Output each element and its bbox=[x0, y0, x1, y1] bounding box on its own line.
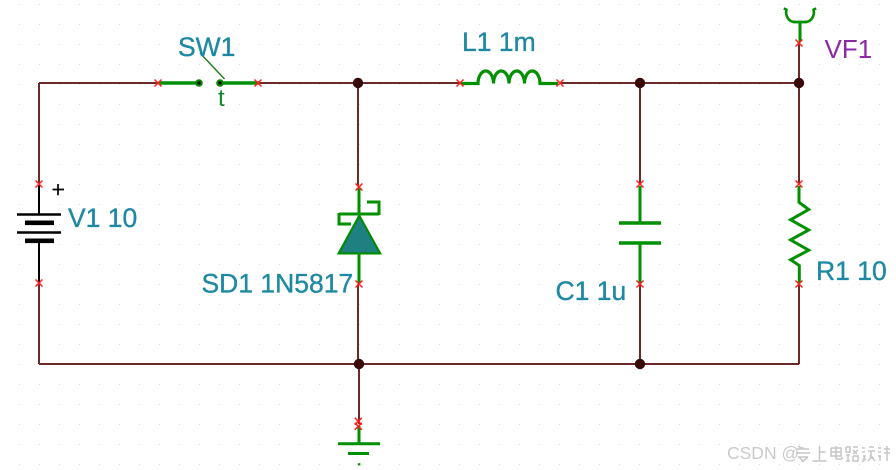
wire ground drop bbox=[358, 364, 360, 424]
node A junction dot bbox=[353, 78, 363, 88]
svg-text:VF1: VF1 bbox=[825, 34, 873, 64]
pin x inductor left bbox=[457, 80, 464, 87]
svg-text:L1 1m: L1 1m bbox=[462, 27, 536, 57]
pin x diode bottom bbox=[356, 281, 363, 288]
svg-text:SD1 1N5817: SD1 1N5817 bbox=[202, 269, 354, 299]
pin x switch right bbox=[255, 80, 262, 87]
wire diode to bottom rail bbox=[357, 284, 359, 364]
node C junction dot (top right corner) bbox=[794, 78, 804, 88]
wire battery - down to bottom rail bbox=[38, 284, 40, 364]
pin x C1 top bbox=[637, 181, 644, 188]
diode SD1 (Schottky) bbox=[339, 188, 381, 283]
wire top-left horizontal (battery + to switch) bbox=[39, 82, 157, 84]
wire R1 to bottom rail bbox=[798, 284, 800, 364]
pin x ground (doubled) bbox=[355, 418, 362, 425]
wire probe drop bbox=[798, 44, 800, 83]
switch SW1 right contact dot bbox=[216, 79, 224, 87]
pin x probe bbox=[796, 40, 803, 47]
wire node A down to diode bbox=[357, 83, 359, 186]
node B junction dot bbox=[635, 78, 645, 88]
pin x battery bottom bbox=[36, 280, 43, 287]
wire C1 to bottom rail bbox=[639, 284, 641, 364]
svg-text:t: t bbox=[218, 85, 225, 112]
wire left vertical (top corner down to battery + pin) bbox=[38, 83, 40, 184]
ground bbox=[338, 426, 380, 464]
pin x inductor right bbox=[557, 80, 564, 87]
svg-text:R1 10: R1 10 bbox=[816, 256, 887, 286]
watermark CJK glyphs (drawn) bbox=[796, 446, 890, 462]
wire node A to inductor bbox=[358, 82, 459, 84]
resistor R1 bbox=[791, 186, 809, 283]
pin x R1 bottom bbox=[796, 281, 803, 288]
switch SW1 bbox=[159, 53, 259, 83]
svg-text:CSDN @: CSDN @ bbox=[727, 443, 799, 463]
battery V1 bbox=[17, 184, 64, 283]
wire node B down to C1 bbox=[639, 83, 641, 184]
capacitor C1 bbox=[619, 186, 661, 283]
wire node B to node C bbox=[640, 82, 799, 84]
svg-text:SW1: SW1 bbox=[178, 32, 235, 62]
pin x C1 bottom bbox=[637, 281, 644, 288]
pin x battery top bbox=[36, 181, 43, 188]
inductor L1 bbox=[461, 71, 558, 84]
pin x R1 top bbox=[796, 181, 803, 188]
switch SW1 left contact dot bbox=[195, 79, 203, 87]
pin x diode top bbox=[356, 184, 363, 191]
wire bottom rail bbox=[39, 363, 799, 365]
wire switch to node A bbox=[259, 82, 358, 84]
wire inductor to node B bbox=[559, 82, 640, 84]
svg-text:C1 1u: C1 1u bbox=[556, 276, 627, 306]
wire node C down to R1 bbox=[798, 83, 800, 184]
junction dot ground tap bbox=[354, 359, 364, 369]
pin x switch left bbox=[155, 80, 162, 87]
svg-text:V1 10: V1 10 bbox=[68, 203, 137, 233]
voltage probe VF1 bbox=[784, 8, 816, 42]
junction dot C1 bottom bbox=[635, 359, 645, 369]
